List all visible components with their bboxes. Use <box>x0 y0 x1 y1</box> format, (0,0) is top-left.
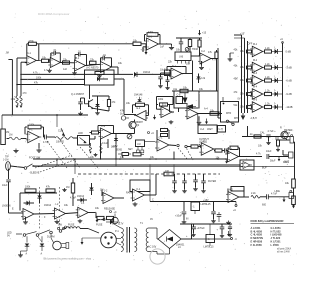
supply arrow <box>278 159 281 161</box>
svg-text:+15: +15 <box>240 33 245 36</box>
wire <box>172 111 174 113</box>
svg-text:4.7uF: 4.7uF <box>43 141 50 144</box>
op-amp B4 <box>187 108 198 119</box>
switch contact <box>185 145 187 147</box>
wire <box>143 46 147 48</box>
diode D2 <box>97 77 100 81</box>
ground <box>95 153 97 155</box>
svg-text:OUT: OUT <box>284 161 290 164</box>
resistor cluster R23 <box>161 134 168 137</box>
ground <box>64 188 66 190</box>
meter input resistor row5 <box>247 106 252 109</box>
svg-text:1N914: 1N914 <box>44 204 52 207</box>
IC pin stubs <box>177 61 179 64</box>
resistor row5 <box>265 105 272 108</box>
ground <box>174 189 176 191</box>
op-amp B1 <box>147 38 159 50</box>
supply arrow <box>145 52 148 55</box>
wire <box>187 146 191 148</box>
meter driver wire <box>242 136 290 138</box>
wire <box>239 156 263 158</box>
svg-text:U-E: U-E <box>173 88 178 91</box>
svg-text:SLEEVE: SLEEVE <box>30 172 40 175</box>
ground <box>229 57 231 59</box>
long top wire <box>39 43 133 45</box>
ground <box>183 220 185 222</box>
wire <box>157 108 162 110</box>
dashed cable run <box>78 173 220 175</box>
LED D8 <box>25 244 30 247</box>
svg-text:-6 dB: -6 dB <box>286 79 292 83</box>
wire <box>97 96 99 99</box>
wire <box>161 72 172 74</box>
trimmer <box>188 40 191 47</box>
capacitor C12 <box>266 194 268 199</box>
svg-text:100k: 100k <box>158 98 164 101</box>
feedback resistor R17 <box>147 33 158 37</box>
diode D10 <box>114 138 118 140</box>
svg-text:1.2k: 1.2k <box>265 63 270 66</box>
bus wire y74 <box>21 73 133 75</box>
capacitor C18 <box>183 202 185 212</box>
svg-text:U-A: U-A <box>200 128 205 131</box>
diode D4 <box>27 201 30 206</box>
meter input resistor row2 <box>247 66 252 69</box>
switch contact <box>59 230 62 233</box>
diode D3 <box>95 104 99 107</box>
IC pin stubs <box>137 147 139 151</box>
svg-text:M-5: M-5 <box>253 99 258 102</box>
resistor R33 <box>122 153 129 156</box>
capacitor C19 <box>213 202 215 212</box>
svg-text:LM78L15: LM78L15 <box>201 203 212 206</box>
svg-text:4.7uF +: 4.7uF + <box>268 130 277 133</box>
wire <box>16 233 22 235</box>
svg-text:C-8: C-8 <box>177 94 182 97</box>
op-amp A4 <box>101 62 112 73</box>
resistor R30 <box>164 172 174 176</box>
wire <box>34 213 55 216</box>
svg-text:1N914: 1N914 <box>143 71 151 74</box>
svg-text:MTR: MTR <box>226 112 231 115</box>
wire <box>214 150 215 152</box>
dashed pot linkage <box>80 147 99 169</box>
svg-text:+18V: +18V <box>203 199 209 202</box>
svg-text:1.2k: 1.2k <box>265 76 270 79</box>
svg-text:B-2: B-2 <box>102 59 106 62</box>
resistor R27 <box>292 179 296 188</box>
svg-text:K LF351: K LF351 <box>271 240 282 244</box>
feedback loop <box>97 126 99 132</box>
ground <box>228 221 230 223</box>
meter switch SW1 <box>221 102 239 123</box>
bridge rectifier BR1 <box>158 230 181 249</box>
filter cap C14 <box>174 174 176 181</box>
ground <box>80 112 82 114</box>
op-amp A9 <box>55 208 66 219</box>
wire <box>225 153 228 155</box>
svg-text:MTR: MTR <box>234 117 239 120</box>
op-amp A3 <box>75 60 86 71</box>
IC box U-H <box>218 126 226 133</box>
svg-text:+15: +15 <box>202 32 207 35</box>
capacitor C8 <box>158 76 162 78</box>
wire <box>80 228 88 230</box>
svg-text:FILTER: FILTER <box>208 180 216 183</box>
filter cap C15 <box>184 174 186 181</box>
wire <box>247 126 249 137</box>
svg-text:U-B: U-B <box>179 56 184 59</box>
resistor R20 <box>210 112 219 115</box>
svg-text:M-1: M-1 <box>253 43 258 46</box>
svg-text:A-1: A-1 <box>27 52 31 55</box>
svg-text:A-2: A-2 <box>51 54 55 57</box>
wire <box>234 34 242 36</box>
wire <box>192 61 194 92</box>
node +C <box>235 205 237 207</box>
wire <box>293 188 295 196</box>
svg-text:Q-1 2N5457: Q-1 2N5457 <box>71 93 85 96</box>
svg-text:C 4L4558: C 4L4558 <box>251 233 263 237</box>
gain cell box U-G <box>85 70 115 85</box>
feedback resistor R10 <box>28 125 41 129</box>
svg-text:JFET: JFET <box>207 128 213 131</box>
bus wire <box>33 158 226 160</box>
feedback resistor R1 <box>28 42 36 45</box>
pot P3 (compression) <box>55 137 73 140</box>
diode D6 <box>89 188 93 191</box>
capacitor C13 <box>266 134 270 136</box>
resistor row2 <box>265 66 272 69</box>
resistor R24 <box>191 145 198 148</box>
capacitor C1 <box>48 59 50 63</box>
dashed switch linkage <box>59 187 61 229</box>
node +C <box>110 211 112 213</box>
op-amp B2 <box>200 53 211 64</box>
wire <box>50 136 55 138</box>
LED D1 <box>272 51 275 53</box>
svg-text:2.2k: 2.2k <box>201 77 206 80</box>
diode D11 <box>110 219 113 224</box>
resistor R36 <box>277 140 280 146</box>
wire <box>20 62 22 96</box>
svg-text:H-1: H-1 <box>229 148 234 151</box>
svg-text:E-2: E-2 <box>137 107 141 110</box>
input resistor R9 <box>9 137 21 140</box>
svg-text:P-1: P-1 <box>115 230 119 233</box>
AC connector P1 <box>101 232 117 248</box>
feedback loop <box>231 187 244 192</box>
rail wire <box>180 223 232 225</box>
svg-text:RATIO: RATIO <box>126 192 133 195</box>
diode D1 <box>134 72 137 77</box>
wire <box>86 64 101 65</box>
svg-text:100k: 100k <box>25 186 31 189</box>
svg-text:M-3: M-3 <box>253 72 258 75</box>
capacitor C7 <box>179 41 183 43</box>
trimmer circle <box>185 48 189 52</box>
wire <box>108 96 110 100</box>
svg-text:0V: 0V <box>238 98 241 101</box>
feedback wire <box>20 192 57 194</box>
wire <box>56 159 58 165</box>
ground <box>38 148 40 150</box>
transistor Q2 <box>129 121 136 128</box>
wire <box>134 120 136 122</box>
rect box <box>130 180 150 192</box>
wire <box>134 227 136 229</box>
wire y91 <box>172 90 218 92</box>
trimmer T3 <box>121 116 125 120</box>
svg-text:RELEASE: RELEASE <box>104 208 115 211</box>
wire <box>115 145 117 159</box>
transformer core <box>126 227 128 253</box>
wire <box>217 48 219 118</box>
svg-text:2.2k: 2.2k <box>251 192 256 195</box>
wire <box>8 169 10 179</box>
svg-text:9V: 9V <box>7 234 10 237</box>
svg-text:R: R <box>280 127 282 130</box>
pot P1 <box>16 96 18 105</box>
svg-text:LM3046: LM3046 <box>2 205 11 208</box>
svg-text:470k: 470k <box>29 40 35 43</box>
svg-text:JM: JM <box>6 52 9 55</box>
ground <box>79 219 81 221</box>
resistor R25 <box>215 149 222 152</box>
op-amp B3 <box>171 68 182 79</box>
ground <box>268 141 270 143</box>
op-amp A13 <box>157 139 169 151</box>
svg-text:E-1: E-1 <box>162 104 166 107</box>
wire <box>145 141 156 143</box>
dashed linkage <box>40 159 77 172</box>
svg-text:U-F: U-F <box>137 143 142 146</box>
svg-text:H TL022: H TL022 <box>271 229 282 233</box>
LED D4 <box>272 93 275 95</box>
wire <box>160 43 166 45</box>
ground <box>56 220 58 222</box>
svg-text:10k-RD: 10k-RD <box>56 141 64 144</box>
svg-text:B-1: B-1 <box>76 57 80 60</box>
feedback resistor R8 <box>136 103 145 106</box>
ground <box>20 253 22 255</box>
wire <box>56 115 58 127</box>
jack J3 <box>289 152 294 158</box>
jack J2 <box>290 137 294 144</box>
ground <box>195 187 197 189</box>
bypass switch <box>24 167 27 170</box>
ground <box>201 66 203 68</box>
svg-text:1.2k: 1.2k <box>265 90 270 93</box>
wire <box>8 59 12 61</box>
dashed switch linkage <box>187 149 194 161</box>
meter input resistor row3 <box>247 79 252 82</box>
capacitor C5 <box>44 135 46 140</box>
capacitor C10 <box>224 148 226 152</box>
long wire y115 <box>2 114 88 116</box>
wire <box>137 73 170 75</box>
feedback cap C4a <box>100 58 102 62</box>
svg-text:J TL022: J TL022 <box>271 236 281 240</box>
resistor R7 <box>107 100 110 107</box>
op-amp A7 <box>101 128 112 139</box>
resistor R28 <box>292 196 296 205</box>
LED D3 <box>272 80 275 82</box>
svg-text:G-2: G-2 <box>203 141 208 144</box>
svg-text:50uF: 50uF <box>270 160 276 163</box>
wire <box>11 60 13 116</box>
op-amp C1 <box>228 151 239 162</box>
svg-text:FUSE: FUSE <box>96 224 103 227</box>
wire <box>73 137 78 139</box>
transformer T1 secondary 2 <box>146 228 148 251</box>
svg-text:SET: SET <box>128 148 133 151</box>
resistor R19 <box>215 52 218 59</box>
regulator U2 box <box>191 202 200 211</box>
wire <box>191 55 200 57</box>
svg-text:LDR: LDR <box>78 132 83 135</box>
switch contact <box>57 227 59 229</box>
svg-text:TIP: TIP <box>5 156 9 159</box>
svg-text:0.1uF: 0.1uF <box>102 142 109 145</box>
svg-text:4.7uF: 4.7uF <box>70 197 77 200</box>
wire <box>100 139 102 159</box>
DC plug <box>53 241 62 250</box>
resistor R6 <box>95 72 104 75</box>
wire <box>8 188 10 213</box>
switch contact <box>50 231 53 234</box>
bus wire y84 <box>17 84 85 86</box>
node -C <box>231 238 233 240</box>
supply arrow <box>198 33 201 36</box>
wire <box>192 238 231 240</box>
svg-text:C-1: C-1 <box>148 36 153 39</box>
svg-text:100: 100 <box>165 170 170 173</box>
svg-text:C-2: C-2 <box>201 50 206 53</box>
node +C <box>148 132 150 134</box>
svg-text:B 4L4558: B 4L4558 <box>251 229 263 233</box>
wire <box>211 58 217 60</box>
op-amp A11 <box>103 193 114 204</box>
filter cap C17 <box>203 174 205 181</box>
capacitor C22 <box>218 212 220 214</box>
resistor R14 <box>71 183 74 193</box>
wire <box>173 166 175 174</box>
wire <box>74 159 76 174</box>
wire <box>115 159 117 166</box>
svg-text:M-4: M-4 <box>253 86 258 89</box>
bus wire y79 <box>21 78 85 80</box>
meter input resistor row1 <box>247 50 252 53</box>
ground <box>242 113 244 116</box>
wire <box>33 165 42 167</box>
IC box U-A <box>198 125 217 134</box>
svg-text:4.7k: 4.7k <box>33 72 38 75</box>
op-amp B6 (output, large) <box>201 143 214 156</box>
svg-text:IN: IN <box>186 218 189 221</box>
wire <box>114 224 121 228</box>
diode D7 <box>196 77 200 79</box>
feedback resistor R35 <box>230 146 238 149</box>
svg-text:H-2: H-2 <box>229 189 234 192</box>
small box <box>165 70 171 76</box>
dashed pot linkage <box>47 141 67 168</box>
rail wire <box>150 201 236 203</box>
trimmer P4 <box>90 143 92 146</box>
capacitor C11 <box>266 154 268 159</box>
wire <box>181 238 192 240</box>
svg-text:1uF: 1uF <box>63 68 68 71</box>
svg-text:Bild powered by www.musikding.: Bild powered by www.musikding.com - shop <box>44 257 92 260</box>
ground <box>171 46 173 48</box>
op-amp A6 <box>28 131 40 143</box>
ground arrow <box>81 238 83 242</box>
resistor row3 <box>265 79 272 82</box>
capacitor C20 <box>193 224 195 227</box>
svg-text:1N914: 1N914 <box>77 195 85 198</box>
wire <box>124 114 136 116</box>
dashed linkage <box>35 155 72 168</box>
svg-text:+C: +C <box>233 209 236 212</box>
resistor R13 <box>25 189 36 192</box>
wire <box>10 166 24 168</box>
wire <box>216 59 218 92</box>
ground <box>221 234 223 236</box>
wire <box>60 62 74 64</box>
ground <box>97 111 99 113</box>
capacitor C9 <box>166 79 170 81</box>
wire <box>283 154 289 156</box>
meter bus wire 3 <box>247 41 249 113</box>
resistor R11 <box>92 131 99 134</box>
pot P2 <box>20 96 22 105</box>
switch contact <box>23 234 26 237</box>
wire <box>62 228 66 230</box>
ground <box>198 121 200 123</box>
svg-text:LINE: LINE <box>275 190 281 193</box>
opto photodiode <box>187 104 193 109</box>
svg-text:+C: +C <box>151 132 154 135</box>
LED D5 <box>272 106 275 108</box>
svg-text:A,B,H: A,B,H <box>251 117 258 120</box>
feedback cap C2 <box>50 53 52 58</box>
wire <box>1 115 3 129</box>
svg-text:G LF351: G LF351 <box>271 226 282 230</box>
resistor R32 <box>46 189 55 192</box>
svg-text:1uF: 1uF <box>160 46 165 49</box>
svg-text:+C: +C <box>68 227 71 230</box>
wire <box>21 61 27 63</box>
wire <box>26 236 28 242</box>
op-amp M1 <box>252 46 263 57</box>
wire <box>178 108 180 112</box>
op-amp A8 <box>23 209 34 220</box>
junction dots <box>56 158 58 160</box>
op-amp A10 <box>78 207 89 218</box>
wire <box>145 194 157 196</box>
ground <box>25 220 27 222</box>
svg-text:600: 600 <box>262 204 267 207</box>
meter bus wire 1 <box>241 35 243 113</box>
LDR box <box>78 136 90 146</box>
regulator U3 box <box>206 235 215 243</box>
ground <box>184 189 186 191</box>
feedback resistor R21 <box>160 103 168 106</box>
transformer T1 secondary <box>135 228 137 251</box>
svg-text:M-2: M-2 <box>253 59 258 62</box>
wire <box>107 139 109 148</box>
wire <box>16 58 18 96</box>
